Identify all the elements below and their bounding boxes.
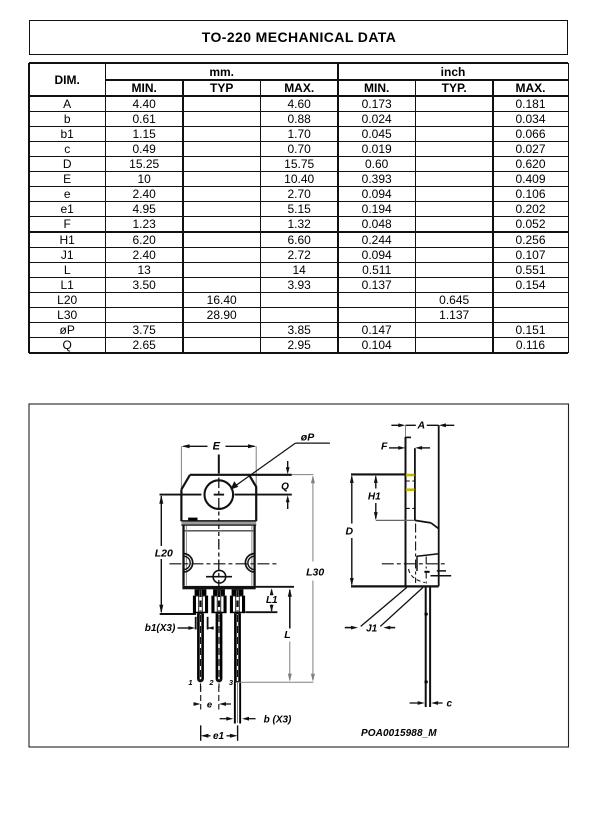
svg-text:L20: L20 xyxy=(155,547,173,559)
hidden lead bend dashes xyxy=(409,569,426,583)
tab top cap xyxy=(406,436,412,438)
tab left edge xyxy=(180,490,182,522)
body bottom line + D reference xyxy=(351,585,439,587)
hole horizontal centerline + L20/Q refs xyxy=(160,494,202,496)
svg-text:Q: Q xyxy=(281,481,289,492)
dimension table xyxy=(29,62,568,64)
svg-text:E: E xyxy=(213,441,221,453)
tab/body interface band xyxy=(181,522,256,525)
small detail lines xyxy=(437,570,446,572)
side view lead xyxy=(425,586,427,707)
e dimension xyxy=(200,686,202,710)
hidden hole dashes xyxy=(406,480,414,482)
H1 bottom reference xyxy=(376,519,415,521)
left notch xyxy=(184,554,193,572)
body top slope xyxy=(415,520,431,523)
tab right edge xyxy=(255,486,257,521)
svg-text:F: F xyxy=(381,440,388,452)
drawing frame xyxy=(29,404,569,747)
svg-text:J1: J1 xyxy=(366,623,378,634)
body right edge xyxy=(253,525,255,586)
b (X3) dimension xyxy=(220,718,229,720)
body left edge xyxy=(182,525,184,586)
yellow hole marks xyxy=(406,474,415,477)
svg-text:3: 3 xyxy=(229,678,234,687)
notch horizontal centerline xyxy=(169,563,279,565)
svg-text:b1(X3): b1(X3) xyxy=(145,623,176,634)
svg-text:D: D xyxy=(346,525,354,537)
svg-text:2: 2 xyxy=(208,678,214,687)
svg-text:L30: L30 xyxy=(306,567,324,579)
Q dimension xyxy=(287,461,289,472)
lead tip reference line xyxy=(236,681,314,683)
dimension E xyxy=(184,445,208,447)
diameter P leader xyxy=(236,443,296,486)
lead 1 front view xyxy=(195,589,207,595)
J1 extension line 1 xyxy=(361,587,407,626)
hidden lead centerline inside body xyxy=(425,557,427,587)
svg-text:e: e xyxy=(207,699,213,710)
title box xyxy=(29,20,568,55)
mounting hole xyxy=(205,480,234,509)
dimension c xyxy=(410,702,420,704)
L30 dimension xyxy=(312,477,314,562)
svg-text:L1: L1 xyxy=(266,595,278,606)
L1 bottom reference xyxy=(245,611,277,613)
body bottom edge xyxy=(182,586,255,589)
body inner left line xyxy=(185,526,187,586)
lead 3 front view xyxy=(232,589,244,595)
dimension D xyxy=(351,477,353,524)
E dim right extension xyxy=(255,446,257,486)
body inner right line xyxy=(251,526,253,586)
right notch xyxy=(245,554,254,572)
dimension A xyxy=(391,424,400,426)
e1 dimension xyxy=(200,725,202,740)
svg-text:øP: øP xyxy=(301,431,315,443)
lead 2 front view xyxy=(213,589,225,595)
body right edge / A reference xyxy=(438,425,440,586)
svg-text:b (X3): b (X3) xyxy=(264,714,292,725)
small index circle xyxy=(213,570,226,583)
small black mark xyxy=(188,518,197,521)
b1(X3) dimension xyxy=(195,617,197,630)
L30 top reference xyxy=(292,474,314,476)
body step line xyxy=(185,530,255,532)
dimension H1 xyxy=(375,477,377,489)
svg-text:L: L xyxy=(284,629,290,641)
left chamfer xyxy=(181,475,190,490)
L dimension xyxy=(289,590,291,629)
inner step xyxy=(417,554,439,557)
svg-text:e1: e1 xyxy=(213,731,225,742)
right chamfer xyxy=(249,475,256,487)
svg-text:POA0015988_M: POA0015988_M xyxy=(361,728,437,739)
svg-text:A: A xyxy=(417,419,426,431)
side tab right edge xyxy=(414,448,416,520)
D/H1 top reference xyxy=(351,473,406,475)
L20 bottom reference xyxy=(160,613,196,615)
svg-text:H1: H1 xyxy=(368,492,381,503)
svg-text:1: 1 xyxy=(188,678,192,687)
hidden tab edge centerline xyxy=(415,524,417,584)
side notch centerline xyxy=(382,563,446,565)
side tab left edge xyxy=(405,425,407,437)
J1 extension line 2 xyxy=(380,587,423,626)
tab top edge + Q ref xyxy=(190,474,292,476)
E dim left extension xyxy=(180,446,182,489)
svg-text:c: c xyxy=(447,698,453,709)
package vertical centerline xyxy=(218,455,220,474)
body bottom reference extension xyxy=(255,586,294,588)
dimension J1 xyxy=(345,627,353,629)
